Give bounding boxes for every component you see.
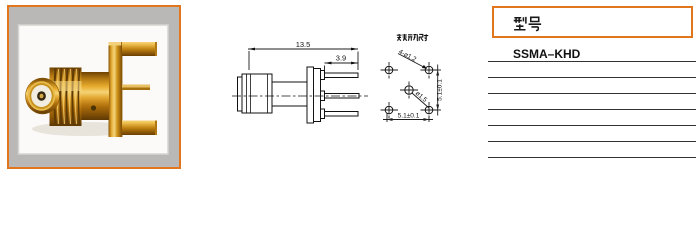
middle pin (325, 94, 360, 99)
knurl ridges (54, 68, 55, 125)
connector shadow (32, 122, 136, 136)
footprint holes (385, 66, 433, 114)
svg-text:13.5: 13.5 (296, 40, 311, 49)
technical drawing (0, 0, 700, 179)
small set hole on barrel (91, 105, 96, 110)
尺 (419, 34, 423, 40)
svg-text:ø1.5: ø1.5 (414, 90, 429, 104)
svg-text:4-ø1.2: 4-ø1.2 (397, 48, 417, 63)
top ground leg (122, 42, 157, 56)
dim 5.1±0.1 bottom (383, 114, 433, 123)
coupling nut (242, 74, 272, 113)
svg-text:5.1±0.1: 5.1±0.1 (437, 79, 444, 101)
barrel between nut and spine (81, 72, 109, 120)
photo white background (19, 25, 169, 154)
bottom pin (325, 112, 359, 117)
dimension 13.5 (248, 49, 358, 70)
安 (397, 34, 402, 41)
footprint title 安装开孔尺寸 (drawn) (397, 34, 428, 41)
装 (402, 34, 406, 41)
hole bottom-left (385, 106, 393, 114)
leader 4-ø1.2 (398, 54, 427, 69)
svg-text:5.1±0.1: 5.1±0.1 (398, 113, 420, 120)
leader center hole ø1.5 (412, 93, 429, 108)
table lines (488, 61, 696, 62)
hole center (405, 86, 413, 94)
号 (529, 17, 542, 30)
型 (514, 17, 522, 22)
SSMA-KHD (513, 47, 580, 61)
top pin (325, 73, 359, 78)
寸 (424, 34, 428, 40)
hole bottom-right (425, 106, 433, 114)
hole top-right (425, 66, 433, 74)
model table header box (492, 6, 693, 38)
hole top-left (385, 66, 393, 74)
centerline (232, 95, 368, 97)
dimension 3.9 (325, 63, 359, 71)
center pin (122, 85, 150, 91)
SMA face (26, 78, 60, 114)
coupling nut (knurled) (50, 68, 82, 127)
flange plate B (314, 69, 321, 122)
flange plate A (307, 67, 314, 123)
svg-text:3.9: 3.9 (336, 54, 346, 63)
front rim (238, 77, 243, 111)
型号 glyphs (513, 15, 542, 34)
barrel (272, 82, 307, 106)
孔 (414, 34, 419, 40)
nut bright band (50, 81, 82, 91)
dim 5.1±0.1 right (434, 65, 442, 116)
开 (408, 35, 412, 41)
connector body block (vertical spine) (109, 42, 123, 137)
bottom ground leg (122, 121, 157, 136)
product photo frame (7, 5, 181, 169)
center marks (381, 62, 439, 119)
